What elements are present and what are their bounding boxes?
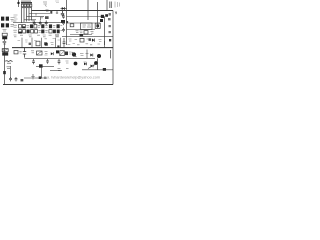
label bl mark [21, 79, 24, 81]
diode D2 [3, 71, 6, 74]
diode D8 [90, 54, 93, 57]
label q-marks [51, 43, 54, 45]
label row3 dark [55, 35, 59, 37]
wire h5 [50, 70, 62, 72]
capacitor C23 [65, 52, 68, 56]
connector J1 [1, 17, 9, 21]
label r5tag [19, 51, 21, 53]
transformer T1 [21, 0, 32, 7]
resistor R2 [70, 24, 74, 27]
wire tap drop [40, 17, 42, 20]
diode D14 [41, 30, 44, 34]
resistor R1 [5, 61, 13, 64]
resistor R7 [34, 25, 37, 28]
resistor R13 [84, 31, 88, 34]
label row50 mid [45, 51, 48, 55]
wire drop w3 [41, 38, 43, 48]
capacitor C6 [33, 20, 36, 25]
wire v4 [104, 17, 106, 46]
label mark m1 [61, 20, 65, 23]
capacitor C22 [46, 59, 49, 64]
label rail blob [103, 68, 106, 71]
capacitor C16 [62, 21, 65, 26]
label a-prefix [44, 77, 46, 79]
label mark m2 [66, 21, 68, 23]
capacitor C17 [62, 28, 65, 33]
label row1 m5 [60, 24, 62, 26]
diode D9 [39, 64, 43, 67]
wire v8 [41, 66, 43, 78]
resistor R10 [35, 30, 38, 33]
wire frame right [112, 11, 114, 85]
capacitor C2 [2, 49, 8, 56]
wire tap rail 1 [29, 13, 50, 15]
label bottom mid2 [84, 62, 87, 64]
label rb dark [80, 34, 84, 36]
label row2 m [38, 30, 40, 32]
label r5 marks [69, 39, 102, 42]
capacitor C18 [63, 38, 66, 48]
diode D11 [91, 65, 94, 68]
label row3 extra2 [29, 43, 31, 45]
label rt cluster [100, 14, 108, 22]
label band extra [68, 44, 101, 45]
label sheet no [115, 12, 117, 15]
wire v2 [87, 0, 89, 20]
diode D6 [92, 39, 95, 42]
label left note [3, 30, 7, 32]
diode D1 [61, 7, 67, 10]
wire stub s1 [56, 11, 58, 15]
wire h4 [82, 69, 113, 71]
label corner text [110, 2, 120, 9]
wire frame left [4, 39, 6, 85]
wire T1 secondary leads [22, 8, 32, 23]
capacitor C15 [62, 14, 65, 19]
diode D13 [27, 30, 30, 34]
connector J2 [1, 23, 9, 27]
label tap marks2 [45, 16, 49, 19]
diode D12 [41, 24, 44, 28]
regulator U3 [30, 24, 33, 28]
diode D7 [51, 52, 54, 55]
label 230V AC [43, 2, 47, 7]
capacitor C9 [22, 25, 25, 28]
label rm marks [80, 31, 94, 33]
wire rail r5 [62, 36, 113, 38]
wire top-right drop [106, 0, 108, 11]
resistor R6 [19, 25, 22, 28]
diode D10 [84, 63, 87, 66]
wire drop w1 [21, 38, 23, 48]
wire rail r2 [67, 22, 101, 24]
capacitor C8 [45, 20, 48, 25]
transistor Q8 [53, 30, 56, 34]
resistor R9 [31, 30, 34, 33]
wire rail r1 [67, 16, 105, 18]
resistor R5 [14, 51, 18, 54]
transistor Q5 [74, 62, 78, 66]
label lc marks [7, 67, 11, 69]
label row50 left [31, 51, 34, 53]
label bus tick [57, 45, 59, 47]
transistor Q3 [72, 52, 77, 57]
wire left tick [3, 43, 5, 45]
capacitor C3 [23, 48, 26, 58]
wire rail r4 [70, 34, 92, 36]
wire tap rail 2 [27, 16, 45, 18]
label left small [3, 41, 7, 43]
wire h8 [24, 77, 47, 79]
label J2 text [11, 24, 15, 26]
ground [31, 74, 34, 79]
label row50 r1 [69, 52, 72, 54]
label row2 text [13, 30, 17, 32]
label row1 m2 [38, 25, 40, 27]
label row3 marks [14, 35, 52, 37]
transistor Q1 [44, 42, 48, 46]
resistor R8 [23, 30, 26, 33]
wire rail r3 [67, 29, 96, 31]
wire drop w4 [55, 38, 57, 48]
label d-text [46, 10, 49, 12]
transistor Q4 [97, 54, 101, 58]
resistor R11 [49, 30, 52, 33]
wire tap ticks [33, 14, 42, 22]
wire ground bus [12, 47, 113, 49]
capacitor C20 [32, 59, 35, 64]
label row1 text [13, 25, 17, 27]
capacitor C1 [2, 33, 7, 39]
wire tap rail 3 [24, 19, 36, 21]
svg-text:a. tvhardwarehelp@yahoo.com: a. tvhardwarehelp@yahoo.com [47, 76, 100, 80]
wire diagonal [88, 64, 97, 69]
label J1 text [11, 18, 16, 22]
capacitor C4 [9, 77, 17, 81]
label row1 m [26, 25, 29, 27]
transistor Q2 [95, 23, 100, 28]
label row3 extra [18, 39, 60, 43]
label row1 m4 [53, 25, 55, 27]
diode D15 [39, 76, 42, 79]
wire drop w2 [31, 38, 33, 48]
wire v5 [110, 50, 112, 58]
wire mid bus [13, 22, 62, 24]
label bottom mid [66, 61, 69, 63]
wire v6 [97, 58, 99, 69]
label row1 m3 [45, 25, 47, 27]
wire v3 [97, 2, 99, 29]
relay K1 [49, 24, 52, 28]
resistor R12 [36, 41, 40, 46]
label ic text [76, 31, 79, 33]
wire v7 [86, 50, 88, 59]
capacitor C21 [58, 59, 61, 64]
capacitor C5 [61, 11, 64, 17]
label row2 m3 [60, 29, 62, 31]
capacitor C7 [39, 20, 42, 25]
label band extra2 [89, 38, 92, 41]
label d-mark [50, 11, 52, 14]
wire v9 [10, 66, 12, 78]
wire drop w6 [104, 41, 106, 48]
wire v1 [66, 0, 68, 45]
capacitor C10 [19, 30, 22, 34]
transistor Q6 [94, 61, 98, 65]
fuse F1 [17, 0, 19, 7]
wire h3 [25, 57, 96, 59]
transistor Q7 [57, 24, 60, 28]
label row2 m2 [45, 30, 47, 32]
op-amp U1 [81, 23, 93, 30]
label mains [55, 1, 59, 3]
wire frame bottom [3, 84, 113, 86]
capacitor C19 [37, 51, 43, 55]
label tap marks [14, 15, 18, 21]
wire h7 [36, 65, 54, 67]
label small marks [58, 68, 69, 70]
label right column parts [108, 13, 111, 41]
wire drop w5 [60, 38, 62, 48]
label row50 r2 [80, 53, 89, 55]
inductor L1 [56, 50, 64, 55]
resistor R4 [80, 38, 84, 42]
transistor Q9 [57, 30, 60, 34]
wire frame top [32, 10, 114, 12]
